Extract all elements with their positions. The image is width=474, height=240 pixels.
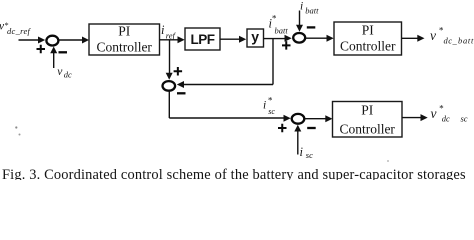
svg-text:v: v [431, 106, 437, 121]
wire i_sc vertical [297, 131, 299, 155]
minus sign at S2 [177, 92, 186, 94]
wire input v_dc_ref to S1 [19, 39, 39, 41]
svg-text:v: v [430, 28, 436, 43]
wire LPF to gain y [220, 38, 240, 40]
wire PI1 to LPF [160, 39, 179, 41]
svg-text:*: * [439, 104, 444, 114]
svg-text:PI: PI [361, 102, 374, 117]
arrowhead i_batt into S3 [296, 25, 303, 32]
summing junction S2 [163, 81, 176, 91]
svg-text:sc: sc [461, 114, 468, 124]
plus sign at S1 [37, 45, 46, 54]
node label v*_dc_sc [431, 104, 468, 124]
svg-text:Controller: Controller [339, 122, 395, 137]
svg-text:ref: ref [166, 30, 177, 40]
arrowhead PI3 output [421, 114, 428, 121]
svg-text:*: * [272, 14, 277, 24]
svg-text:v: v [57, 66, 63, 78]
artifact dot 1 [15, 126, 17, 128]
arrowhead into S1 [38, 37, 45, 44]
svg-text:Controller: Controller [340, 39, 396, 54]
wire gain y to S3 [264, 38, 286, 40]
arrowhead i_sc into S4 [294, 125, 301, 132]
wire S4 to PI3 [305, 118, 327, 120]
svg-text:batt: batt [458, 35, 474, 45]
wire PI2 output [402, 37, 419, 39]
svg-text:*: * [439, 26, 444, 36]
node label v*_dc_ref [0, 21, 32, 37]
block U1 PI Controller [89, 23, 160, 55]
svg-text:sc: sc [268, 107, 275, 116]
minus sign at S4 [307, 127, 316, 129]
node label v_dc [57, 66, 72, 80]
svg-text:Fig. 3. Coordinated control sc: Fig. 3. Coordinated control scheme of th… [2, 167, 466, 180]
artifact dot 3 [387, 160, 389, 162]
svg-text:i: i [300, 0, 303, 12]
arrowhead into S3 [285, 35, 292, 42]
summing junction S3 [293, 33, 305, 43]
svg-text:dc_: dc_ [444, 35, 458, 45]
wire feedback horizontal to S2 [183, 84, 273, 86]
arrowhead down into S2 [166, 73, 173, 80]
node label i_ref [161, 23, 177, 40]
svg-text:i: i [263, 99, 266, 111]
node label i*_sc [263, 96, 275, 117]
artifact dot 2 [19, 134, 21, 136]
arrowhead into LPF [178, 36, 185, 43]
minus sign at S3 [307, 26, 316, 28]
arrowhead v_dc into S1 [50, 47, 57, 54]
svg-text:PI: PI [118, 23, 131, 38]
svg-text:*: * [268, 96, 273, 106]
node label v*_dc_batt [430, 26, 474, 46]
block U2 PI Controller [334, 22, 402, 55]
svg-text:sc: sc [306, 150, 313, 160]
plus sign at S2 [174, 67, 183, 76]
svg-text:Controller: Controller [96, 40, 152, 55]
node label i_sc [300, 145, 314, 160]
wire i_batt drop [299, 11, 301, 26]
svg-text:batt: batt [305, 5, 319, 15]
svg-text:y: y [251, 29, 259, 45]
arrowhead into PI2 [327, 35, 334, 42]
arrowhead into gain y [239, 36, 246, 43]
wire S1 to PI1 [59, 39, 83, 41]
wire PI3 output [402, 117, 421, 119]
block U3 PI Controller [333, 102, 403, 138]
minus sign at S1 [59, 51, 68, 53]
svg-text:PI: PI [362, 22, 375, 37]
plus sign at S4 [278, 124, 287, 133]
svg-text:LPF: LPF [191, 32, 215, 47]
wire S2 down [168, 91, 170, 118]
wire feedback from y output down [272, 39, 274, 85]
block LPF [185, 28, 220, 50]
svg-text:dc_ref: dc_ref [7, 26, 32, 36]
arrowhead into PI3 [325, 115, 332, 122]
svg-text:i: i [161, 23, 165, 37]
plus sign at S3 [282, 41, 291, 50]
wire v_dc vertical [53, 52, 55, 68]
summing junction S1 [46, 36, 58, 46]
svg-text:batt: batt [275, 25, 289, 35]
arrowhead PI2 output [417, 35, 424, 42]
wire drop from i_ref node to S2 [169, 40, 171, 74]
wire S3 to PI2 [306, 37, 328, 39]
arrowhead into PI1 [82, 37, 89, 44]
summing junction S4 [292, 114, 305, 124]
arrowhead feedback into S2 [177, 81, 184, 88]
svg-text:i: i [300, 145, 304, 159]
svg-text:dc: dc [64, 70, 72, 80]
arrowhead into S4 [284, 115, 291, 122]
node label i_batt [300, 0, 319, 15]
svg-text:dc: dc [442, 114, 450, 124]
node label i*_batt [269, 14, 289, 36]
block gain y [247, 29, 264, 48]
wire S2 to S4 horizontal [169, 117, 284, 119]
